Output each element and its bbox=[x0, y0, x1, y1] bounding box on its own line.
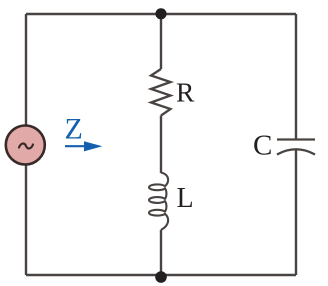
wire bottom bbox=[26, 274, 296, 276]
wire right lower bbox=[295, 149, 297, 275]
wire middle upper bbox=[160, 14, 162, 69]
wire middle mid bbox=[160, 116, 162, 174]
capacitor C top plate bbox=[277, 138, 315, 140]
node top junction bbox=[155, 8, 166, 19]
svg-text:L: L bbox=[177, 183, 194, 214]
wire top bbox=[26, 13, 296, 15]
inductor L bbox=[149, 173, 168, 230]
wire left bbox=[25, 14, 27, 275]
node bottom junction bbox=[155, 271, 167, 283]
svg-text:R: R bbox=[176, 77, 195, 108]
impedance arrow head bbox=[84, 141, 102, 151]
wire middle lower bbox=[160, 230, 162, 275]
AC source tilde bbox=[19, 144, 33, 149]
resistor R bbox=[151, 69, 171, 116]
impedance arrow shaft bbox=[65, 145, 87, 147]
AC source bbox=[6, 126, 45, 165]
capacitor C curved plate bbox=[277, 149, 315, 154]
svg-text:Z: Z bbox=[65, 113, 83, 146]
wire right upper bbox=[295, 14, 297, 139]
svg-text:C: C bbox=[253, 130, 272, 162]
